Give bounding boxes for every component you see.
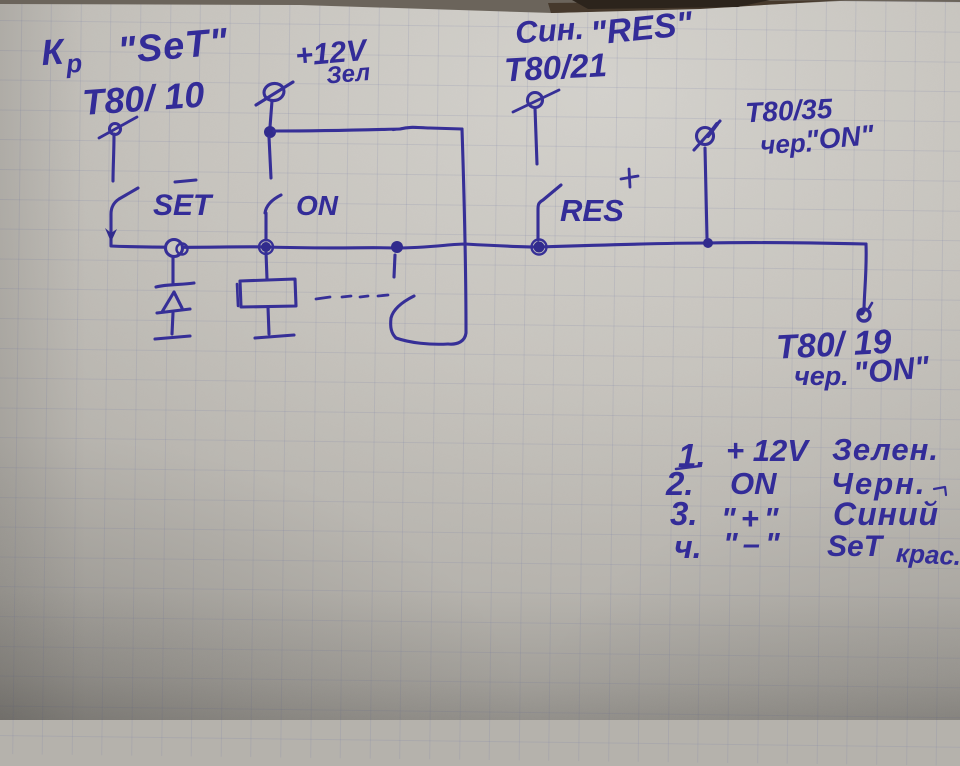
- svg-text:ON: ON: [730, 466, 777, 501]
- svg-text:ON: ON: [296, 190, 339, 221]
- svg-text:Синий: Синий: [833, 496, 939, 532]
- svg-text:"ON": "ON": [852, 349, 932, 391]
- svg-text:Зелен.: Зелен.: [832, 432, 939, 467]
- svg-text:+ 12V: + 12V: [726, 433, 810, 468]
- svg-text:SeT: SeT: [827, 530, 885, 563]
- svg-text:Син.: Син.: [514, 11, 585, 51]
- svg-text:крас.: крас.: [895, 538, 960, 571]
- svg-text:T80/21: T80/21: [503, 46, 608, 88]
- svg-text:RES: RES: [560, 193, 624, 228]
- svg-text:р: р: [64, 48, 83, 79]
- svg-text:"–": "–": [723, 526, 785, 561]
- svg-text:чер.: чер.: [794, 361, 849, 391]
- svg-text:3.: 3.: [670, 495, 698, 532]
- svg-text:ч.: ч.: [674, 529, 702, 565]
- svg-text:T80/ 10: T80/ 10: [81, 74, 206, 123]
- svg-text:Зел: Зел: [325, 59, 371, 90]
- svg-text:SET: SET: [153, 189, 214, 222]
- svg-text:"ON": "ON": [804, 119, 876, 156]
